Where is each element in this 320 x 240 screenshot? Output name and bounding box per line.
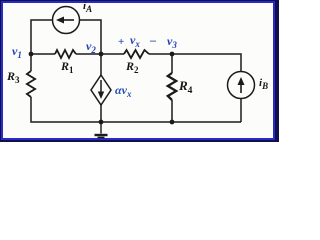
resistor R2 [124, 50, 149, 58]
wire v3 to R4 [171, 54, 173, 73]
wire top loop right vertical [80, 20, 102, 54]
wire v1 to R1 [31, 53, 55, 55]
arrowhead iB [238, 77, 245, 85]
node v2 dot [99, 52, 104, 57]
wire v1 to R3 [30, 54, 32, 71]
svg-text:R2: R2 [125, 59, 139, 75]
ground [95, 122, 108, 138]
wire iB bottom [240, 99, 242, 123]
svg-text:v3: v3 [167, 34, 177, 50]
arrowhead alpha vx [98, 92, 104, 100]
resistor R1 [55, 50, 76, 58]
svg-text:iB: iB [259, 77, 268, 91]
svg-text:R1: R1 [60, 59, 74, 75]
svg-text:iA: iA [83, 0, 92, 14]
svg-text:v1: v1 [12, 44, 22, 60]
wire R4 to bottom [171, 100, 173, 122]
wire v2 to R2 [101, 53, 124, 55]
svg-text:vx: vx [130, 33, 140, 49]
svg-text:R4: R4 [178, 78, 193, 96]
svg-text:v2: v2 [86, 39, 96, 55]
junction dot bottom center [99, 120, 104, 125]
junction dot bottom R4 [170, 120, 175, 125]
current source U iA [53, 7, 80, 34]
wire v2 to diamond [100, 54, 102, 75]
wire R3 to bottom [31, 97, 101, 122]
node v3 dot [170, 52, 175, 57]
svg-text:+: + [118, 36, 124, 48]
wire bottom middle [101, 121, 172, 123]
resistor R3 [27, 71, 35, 97]
wire diamond to bottom [100, 105, 102, 122]
node v1 dot [29, 52, 34, 57]
dependent source alpha vx [91, 75, 111, 105]
current source U iB [228, 72, 255, 99]
svg-text:αvx: αvx [115, 83, 132, 99]
wire R2 to v3 [149, 53, 172, 55]
wire bottom right [172, 121, 241, 123]
resistor R4 [168, 73, 176, 100]
wire v3 to right corner [172, 54, 241, 72]
wire top loop left vertical [31, 20, 53, 54]
wire R1 to v2 [76, 53, 101, 55]
svg-text:–: – [149, 33, 157, 47]
arrowhead iA [56, 17, 64, 24]
svg-text:R3: R3 [6, 69, 20, 85]
